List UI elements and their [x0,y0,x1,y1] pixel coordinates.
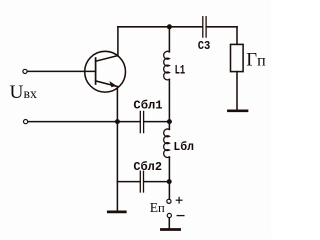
svg-text:Сбл1: Сбл1 [133,98,162,113]
svg-text:Сбл2: Сбл2 [133,159,162,174]
svg-text:Еп: Еп [150,200,165,215]
svg-text:Гп: Гп [246,50,266,71]
svg-text:Lбл: Lбл [173,139,194,154]
svg-text:L1: L1 [175,62,186,77]
svg-text:C3: C3 [198,39,211,53]
svg-text:Uвх: Uвх [10,82,37,103]
